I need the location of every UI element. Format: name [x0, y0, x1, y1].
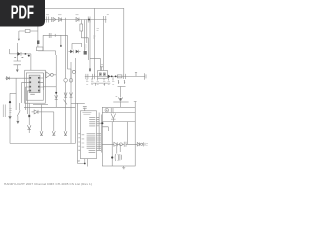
- svg-text:PDF: PDF: [11, 2, 34, 22]
- svg-text:HANDYLIGHT 2007 Channel DMX CH: HANDYLIGHT 2007 Channel DMX CH-4005 CS L…: [4, 182, 92, 186]
